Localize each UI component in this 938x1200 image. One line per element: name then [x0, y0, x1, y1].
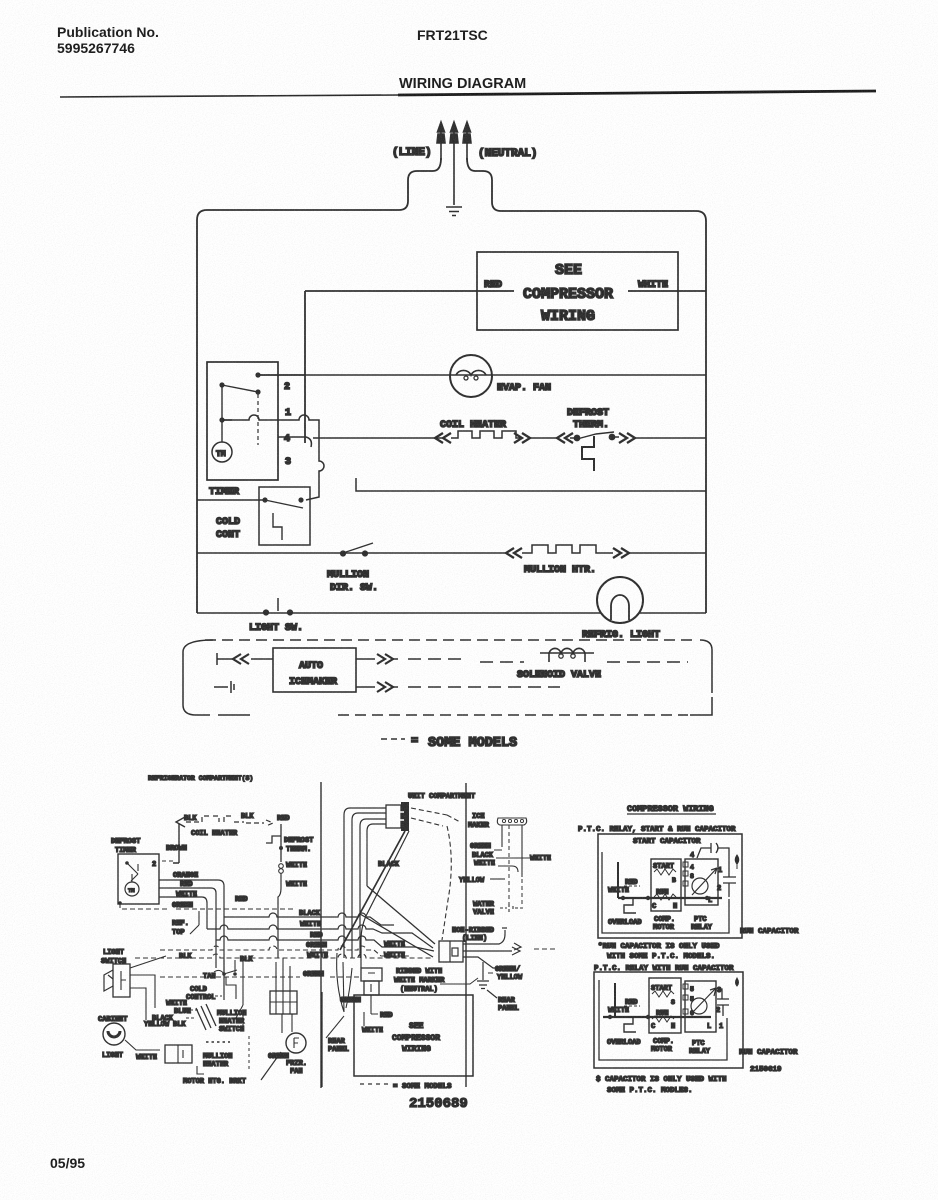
diagonal to non-ribbed: [442, 826, 451, 940]
light switch: [263, 609, 269, 615]
wire bundle from unit plug: [344, 808, 386, 958]
ptc relay box 1: [685, 859, 718, 905]
timer internal wire: [222, 385, 232, 442]
run capacitor box2: [716, 989, 729, 1016]
defrost therm lower symbol: [266, 824, 281, 862]
coil heater dashed feed arrow: [176, 817, 185, 827]
icemaker feed wire: [217, 658, 273, 660]
cabinet light circle: [103, 1023, 125, 1045]
dashes to red arrow: [246, 820, 273, 826]
some-models dashed box top: [205, 639, 696, 641]
icemaker out wire 2: [356, 686, 398, 688]
terminal 2 dashed stub: [162, 860, 174, 862]
see compressor wiring box lower: [354, 995, 473, 1076]
evap fan coils: [456, 370, 486, 375]
connector feed wires: [276, 958, 290, 991]
defrost therm dot: [279, 846, 283, 850]
wire white out of compressor box: [628, 290, 706, 292]
start capacitor loop: [697, 843, 729, 869]
non-ribbed connector: [439, 941, 463, 962]
coil heater arrows: [435, 433, 451, 443]
terminal orange wire: [159, 880, 224, 1000]
some-models dashed box left: [183, 640, 250, 715]
defrost therm hook: [582, 436, 594, 471]
dashed drops to water valve: [509, 825, 522, 904]
freezer connector: [270, 991, 297, 1014]
second diagonal: [361, 831, 409, 968]
terminal 4 wire: [278, 437, 311, 447]
timer dashed contact drop: [257, 394, 259, 445]
terminal red wire: [159, 888, 216, 968]
diagonal feed A: [367, 886, 435, 944]
box2 inner left rail: [599, 980, 727, 1060]
mullion heater switch symbol: [236, 960, 243, 1030]
legend some models lower: [360, 1083, 390, 1085]
refrig light filament: [611, 595, 629, 620]
mullion heater box: [165, 1045, 192, 1063]
motor box 1: [651, 859, 681, 911]
defrost timer contacts: [127, 863, 138, 882]
wire line-side down to box top-left: [197, 158, 441, 613]
cold control contacts lower: [222, 972, 226, 976]
icemaker water line: [214, 681, 234, 693]
wire red vertical drop: [304, 291, 306, 443]
terminal 2 wire: [258, 374, 305, 376]
inline connector: [279, 864, 284, 869]
ground rear panel: [477, 962, 497, 998]
some-models dashed box right: [690, 640, 712, 715]
defrost timer box: [118, 854, 159, 904]
cold control internal step: [273, 513, 282, 540]
ground symbol: [446, 207, 462, 216]
solenoid valve coil: [480, 661, 524, 663]
main wire box2: [603, 1016, 711, 1018]
timer contact arm: [222, 385, 258, 392]
refrig light circle: [597, 577, 643, 623]
overload box1: [624, 898, 636, 913]
plug prong arrow NEUTRAL: [463, 122, 471, 160]
connector stack mid: [361, 968, 382, 981]
header rule right: [398, 91, 876, 95]
light switch wires: [130, 956, 166, 1020]
defrost therm contacts: [570, 432, 619, 439]
compressor box 1: [598, 834, 742, 938]
spine vertical right: [465, 783, 467, 1087]
legend some models: [381, 738, 405, 740]
light switch body: [113, 964, 130, 997]
coil heater resistor: [451, 431, 522, 438]
defrost timer bottom dot: [118, 901, 122, 905]
icemaker feed arrows: [233, 654, 249, 664]
evap fan circle: [450, 355, 492, 397]
defrost therm arrows: [557, 433, 573, 443]
cold control box: [259, 487, 310, 545]
wire neutral-side down to box top-right: [467, 158, 706, 613]
box1 inner left rail: [602, 852, 729, 933]
terminal white wire: [159, 897, 207, 929]
rear panel left vertical: [321, 992, 323, 1087]
light switch bus: [197, 612, 706, 614]
motor box 2: [649, 978, 681, 1033]
run capacitor right: [723, 869, 736, 897]
line out of connector: [463, 928, 515, 968]
freezer fan wires: [282, 1014, 292, 1033]
timer junction dots: [219, 382, 224, 387]
black diagonal: [340, 831, 405, 950]
funnel wires: [337, 953, 352, 1012]
coil heater dashed resistor: [186, 816, 244, 822]
see compressor wiring box: [477, 252, 678, 330]
freezer fan circle: [286, 1033, 306, 1053]
ice maker drop wires: [502, 825, 522, 877]
mullion dir switch: [340, 550, 346, 556]
defrost timer TM circle: [125, 882, 139, 896]
header rule left: [60, 95, 400, 97]
icemaker out wire 1: [356, 658, 398, 660]
spine vertical left: [320, 782, 322, 1088]
green dashed wire: [120, 903, 295, 909]
unit compartment plug: [386, 805, 401, 828]
mullion bus: [197, 552, 706, 554]
branch bus y491: [356, 478, 706, 491]
overload box2: [624, 1017, 636, 1032]
main wire box1: [618, 897, 722, 899]
some-models dashed box bottom: [338, 714, 688, 716]
ptc relay box 2: [685, 981, 716, 1032]
terminal 1 wire with hops: [222, 415, 324, 500]
timer box: [207, 362, 278, 480]
teardrop mark: [736, 978, 739, 986]
compressor box 2: [594, 972, 743, 1068]
brown drop wire: [173, 824, 179, 863]
coil heater bus: [313, 437, 706, 439]
cold control feed wire: [197, 499, 265, 501]
plug prong arrow middle: [450, 122, 458, 205]
icemaker wire stubs: [494, 850, 530, 872]
mullion heater arrows: [506, 548, 522, 558]
hatch connector: [196, 1004, 216, 1030]
auto icemaker box: [273, 648, 356, 692]
mullion heater resistor: [522, 545, 613, 553]
plug prong arrow LINE: [437, 122, 445, 160]
dashed leads to ice maker: [411, 808, 460, 826]
wire red into compressor box: [305, 290, 514, 292]
cold control contacts: [262, 497, 267, 502]
dollar mark: [735, 855, 739, 869]
ice maker connector: [497, 818, 526, 825]
mullion heater dashes: [206, 1041, 230, 1043]
diagonal feed B: [360, 914, 433, 957]
wire evap fan bus: [258, 374, 706, 376]
green slant wire: [261, 1052, 281, 1080]
water valve connector: [500, 904, 524, 912]
timer TM motor circle: [212, 442, 232, 462]
